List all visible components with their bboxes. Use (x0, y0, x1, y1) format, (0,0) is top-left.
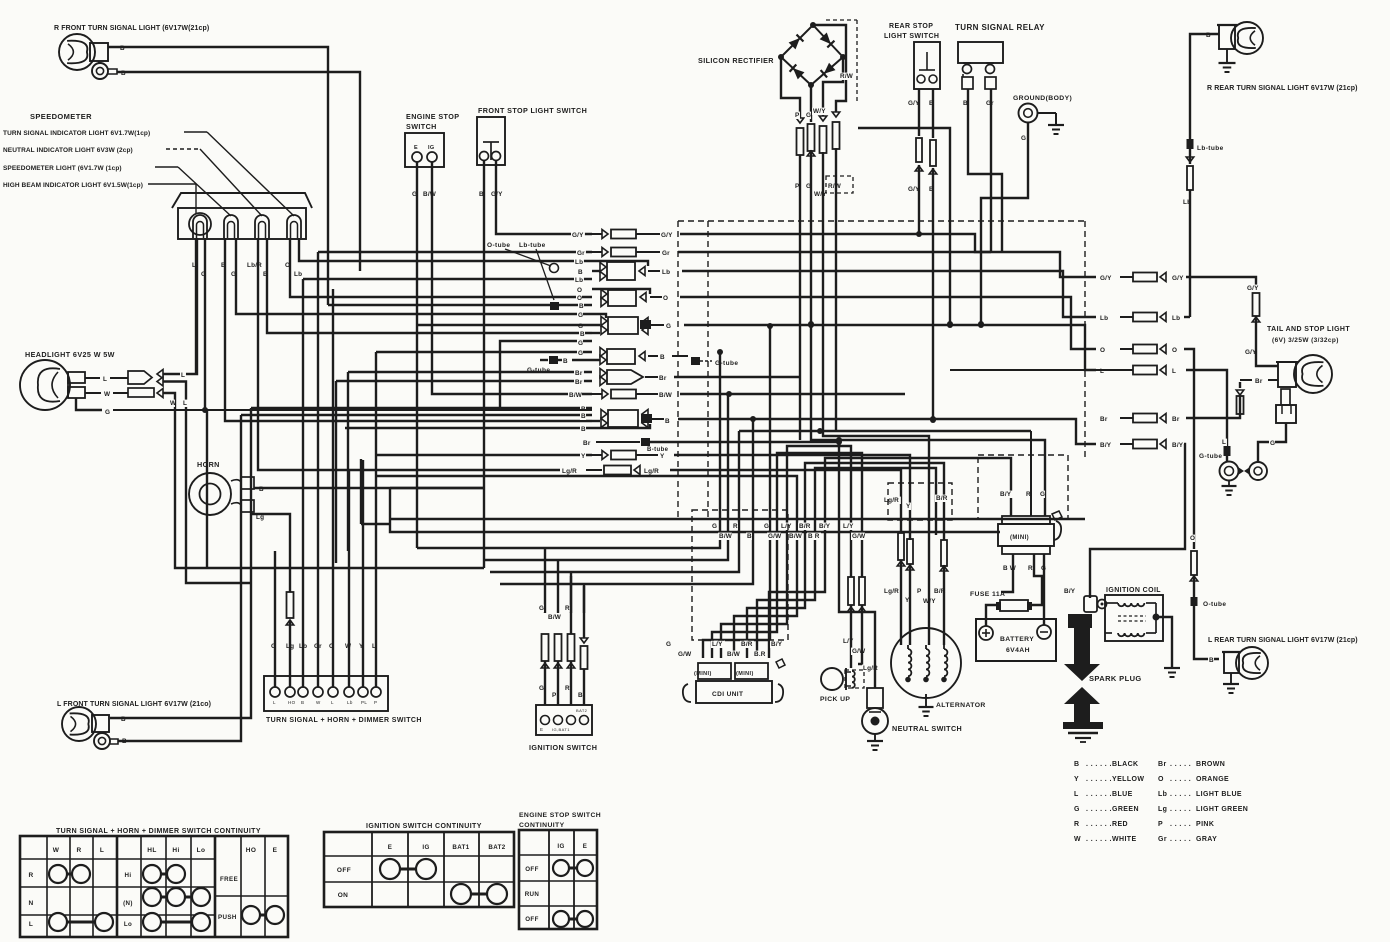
svg-text:G: G (1074, 806, 1080, 813)
tube markers O-tube Lb-tube (487, 242, 559, 310)
wire B run (500, 419, 753, 584)
label L front turn signal light (57, 701, 211, 708)
connector row B/W (568, 390, 905, 400)
wire G from rectifier to MINI connector (805, 85, 1045, 516)
wire L from headlight (85, 238, 251, 583)
svg-text:CONTINUITY: CONTINUITY (519, 822, 565, 829)
leader speedometer light (3, 165, 231, 216)
svg-text:FREE: FREE (220, 876, 238, 883)
svg-text:Lb: Lb (662, 269, 670, 276)
svg-text:B: B (301, 700, 304, 705)
svg-text:G: G (764, 523, 769, 530)
wire P from rectifier (781, 57, 804, 440)
svg-text:L/Y: L/Y (843, 523, 854, 530)
connector row G/Y centre (571, 230, 1096, 278)
svg-text:Br: Br (1158, 761, 1167, 768)
svg-text:B/Y: B/Y (1172, 442, 1184, 449)
svg-text:Br: Br (583, 440, 591, 447)
label alternator (936, 702, 986, 709)
svg-text:PL: PL (361, 700, 367, 705)
svg-text:IGNITION COIL: IGNITION COIL (1106, 587, 1161, 594)
svg-text:. . . . .: . . . . . (1170, 836, 1191, 843)
ring terminal R front turn signal (92, 63, 117, 79)
svg-text:Lg/R: Lg/R (644, 468, 659, 475)
svg-text:IG: IG (428, 145, 435, 151)
svg-text:W/Y: W/Y (814, 191, 827, 198)
socket link (1238, 467, 1250, 475)
labels wire bundle (711, 523, 866, 540)
svg-text:FRONT STOP LIGHT SWITCH: FRONT STOP LIGHT SWITCH (478, 106, 587, 115)
ring terminal L front turn signal (94, 733, 118, 749)
svg-text:BATTERY: BATTERY (1000, 636, 1034, 643)
svg-text:IGNITION SWITCH: IGNITION SWITCH (529, 743, 597, 752)
wire B.R CDI to alternator (757, 468, 936, 658)
svg-text:E: E (583, 843, 588, 850)
svg-text:L/Y: L/Y (843, 638, 854, 645)
silicon rectifier bridge (778, 22, 846, 88)
svg-text:Br: Br (659, 375, 667, 382)
svg-text:Lb-tube: Lb-tube (519, 242, 546, 249)
svg-text:B: B (581, 413, 586, 420)
label silicon rectifier (698, 56, 774, 65)
table ignition switch continuity (324, 823, 514, 907)
svg-text:L: L (181, 372, 185, 379)
svg-text:G-tube: G-tube (715, 360, 738, 367)
front stop light switch (477, 117, 505, 165)
speedometer bulb 2 (224, 215, 238, 238)
wire B2 from L front turn signal (118, 415, 241, 745)
svg-text:G/Y: G/Y (661, 232, 673, 239)
svg-text:TAIL AND STOP LIGHT: TAIL AND STOP LIGHT (1267, 326, 1350, 333)
svg-text:P: P (795, 112, 800, 119)
label front stop light switch (478, 106, 587, 115)
label headlight (25, 350, 115, 359)
table turn signal horn dimmer switch continuity (20, 828, 288, 937)
horn terminals (231, 477, 254, 512)
connector row right Br to tail light (1099, 382, 1244, 423)
connector G ignition switch (538, 605, 549, 705)
svg-text:BAT2: BAT2 (576, 708, 588, 713)
wire W from headlight (85, 388, 484, 568)
svg-text:L: L (1172, 368, 1176, 375)
svg-text:. . . . .: . . . . . (1170, 806, 1191, 813)
connector B/Y ignition coil (1063, 588, 1107, 612)
svg-text:G: G (1270, 440, 1275, 447)
wire W to dimmer switch (344, 470, 352, 687)
dashed marker around R/W (826, 20, 857, 193)
svg-text:B: B (563, 358, 568, 365)
svg-text:B/W: B/W (789, 533, 803, 540)
pick up coil (846, 668, 855, 690)
connector row right L with G-tube (950, 366, 1231, 463)
wire G2 from speedometer to connector (230, 238, 592, 314)
svg-text:N: N (28, 900, 33, 907)
dashed box alternator pins (888, 483, 952, 520)
wire R drop to ignition switch (570, 572, 572, 613)
svg-text:E: E (388, 844, 393, 851)
wire G from engine stop switch (411, 162, 440, 548)
ground body ring terminal (1019, 104, 1038, 123)
wire Lg to dimmer switch with connector (285, 590, 295, 687)
svg-text:G: G (1040, 491, 1045, 498)
svg-text:. . . . .: . . . . . (1170, 791, 1191, 798)
lamp R rear turn signal (1217, 22, 1263, 54)
svg-text:SWITCH: SWITCH (406, 122, 437, 131)
svg-text:E: E (414, 145, 418, 151)
wire B2 from R front turn signal to connector row B (117, 70, 360, 271)
svg-text:B R: B R (808, 533, 820, 540)
svg-text:L: L (183, 400, 187, 407)
svg-text:TURN SIGNAL RELAY: TURN SIGNAL RELAY (955, 23, 1045, 32)
svg-text:Hi: Hi (172, 847, 179, 854)
svg-text:TURN SIGNAL INDICATOR LIGHT 6: TURN SIGNAL INDICATOR LIGHT 6V1.7W(1cp) (3, 130, 150, 137)
svg-text:G: G (578, 312, 583, 319)
ground L rear turn signal (1223, 673, 1239, 693)
svg-text:Br: Br (1172, 416, 1180, 423)
svg-text:W/Y: W/Y (813, 108, 826, 115)
svg-text:PINK: PINK (1196, 821, 1214, 828)
ground symbol body (1037, 113, 1064, 134)
wire B from turn signal relay (962, 89, 1002, 252)
wire junction node (858, 128, 953, 327)
wire B from R front turn signal to node (108, 45, 328, 305)
svg-text:P: P (552, 692, 557, 699)
connector row Br single with B-tube (582, 438, 842, 453)
svg-text:O: O (1100, 347, 1105, 354)
svg-text:ENGINE STOP: ENGINE STOP (406, 112, 459, 121)
svg-text:Lb/R: Lb/R (247, 262, 262, 269)
spark plug (1063, 687, 1103, 742)
svg-text:ORANGE: ORANGE (1196, 776, 1229, 783)
svg-text:(N): (N) (123, 900, 133, 907)
leader high beam indicator light (3, 182, 196, 213)
Lb-tube marker (1187, 139, 1224, 152)
svg-text:B/R: B/R (936, 495, 948, 502)
svg-text:B: B (579, 303, 584, 310)
svg-text:BLUE: BLUE (1112, 791, 1133, 798)
svg-text:GROUND(BODY): GROUND(BODY) (1013, 95, 1072, 102)
svg-text:B: B (578, 269, 583, 276)
label fuse (970, 591, 1005, 598)
wire long run y532 (390, 488, 1000, 532)
svg-text:Lb: Lb (294, 271, 302, 278)
wire B/W run (484, 394, 728, 560)
wire R MINI stub (1030, 431, 1032, 516)
ignition coil (1105, 595, 1163, 641)
wire B from L front turn signal (110, 408, 251, 723)
tail light socket right (1249, 462, 1267, 480)
speedometer housing (172, 193, 312, 239)
connector B/W ignition switch (547, 614, 562, 705)
dashed harness boundary (678, 221, 1085, 520)
wire B2 from speedometer to connector (262, 238, 592, 333)
turn signal relay body (958, 42, 1003, 63)
svg-text:Lg/R: Lg/R (884, 497, 899, 504)
svg-text:G/Y: G/Y (1172, 275, 1184, 282)
svg-text:B: B (665, 418, 670, 425)
wire long run y519 (361, 459, 1085, 524)
svg-text:Br: Br (575, 379, 583, 386)
wire B from R rear turn signal (1190, 32, 1219, 139)
label engine stop switch (406, 112, 459, 131)
svg-text:HL: HL (147, 847, 156, 854)
svg-text:W: W (316, 700, 321, 705)
svg-text:O-tube: O-tube (1203, 601, 1226, 608)
svg-text:HO: HO (288, 700, 296, 705)
svg-text:(MINI): (MINI) (1010, 535, 1029, 541)
svg-text:O: O (577, 295, 582, 302)
svg-text:Lb: Lb (1158, 791, 1167, 798)
leader turn signal indicator light (3, 130, 294, 216)
svg-text:P: P (917, 588, 922, 595)
svg-text:B: B (1074, 761, 1079, 768)
connector row Gr (318, 248, 991, 258)
svg-text:Y: Y (1074, 776, 1079, 783)
svg-text:G: G (105, 409, 110, 416)
svg-text:Lo: Lo (124, 921, 132, 928)
svg-text:(6V) 3/25W (3/32cp): (6V) 3/25W (3/32cp) (1272, 337, 1339, 344)
wire B from speedometer to connector (220, 238, 592, 421)
speedometer bulb 4 (287, 215, 301, 238)
svg-text:CDI UNIT: CDI UNIT (712, 691, 743, 698)
wire Lg from horn (252, 514, 290, 590)
svg-text:O: O (1190, 535, 1195, 542)
svg-text:G/W: G/W (852, 648, 866, 655)
connector row right O (1099, 345, 1194, 550)
wire B/W from MINI (1001, 554, 1013, 592)
svg-text:R: R (733, 523, 738, 530)
wire B/W drop to ignition switch (557, 560, 559, 613)
svg-text:B/Y: B/Y (819, 523, 831, 530)
svg-text:Lb: Lb (1172, 315, 1180, 322)
speedometer bulb 3 (255, 215, 269, 238)
labels CDI wires (665, 641, 784, 658)
svg-text:BLACK: BLACK (1112, 761, 1139, 768)
wire G drop to ignition switch (544, 548, 546, 613)
neutral switch (862, 688, 888, 734)
svg-text:Lo: Lo (197, 847, 206, 854)
dashed box MINI pins (978, 455, 1068, 519)
MINI connector battery (998, 511, 1062, 554)
wire fuse to battery plus (986, 605, 996, 626)
svg-text:B: B (581, 426, 586, 433)
wire G tail light (1258, 423, 1286, 462)
wire B from horn (254, 486, 484, 524)
wire G/W CDI to pick up (712, 453, 862, 658)
svg-text:PICK UP: PICK UP (820, 696, 850, 703)
rear stop light switch (914, 42, 940, 89)
CDI unit (683, 659, 785, 703)
svg-text:G: G (1021, 135, 1026, 142)
svg-text:G/W: G/W (852, 533, 866, 540)
svg-text:R: R (565, 685, 570, 692)
svg-text:L: L (331, 700, 334, 705)
svg-text:Lb: Lb (575, 277, 583, 284)
wire W/Y from rectifier to alternator (812, 57, 929, 540)
svg-text:. . . . . .: . . . . . . (1086, 806, 1112, 813)
svg-text:Gr: Gr (662, 250, 670, 257)
svg-text:R: R (28, 872, 33, 879)
wire G/Y from front stop light switch to connector row (490, 161, 592, 234)
wire R to MINI connector (739, 428, 1031, 434)
svg-text:(MINI): (MINI) (736, 671, 754, 677)
wire Lb to connector row (1182, 149, 1194, 317)
svg-text:G: G (666, 641, 671, 648)
svg-text:O-tube: O-tube (487, 242, 510, 249)
svg-text:. . . . .: . . . . . (1170, 761, 1191, 768)
svg-text:. . . . .: . . . . . (1170, 821, 1191, 828)
svg-text:. . . . . .: . . . . . . (1086, 821, 1112, 828)
svg-text:6V4AH: 6V4AH (1006, 647, 1030, 654)
wire R from MINI to fuse (1032, 554, 1042, 605)
svg-text:B/Y: B/Y (1064, 588, 1076, 595)
tail and stop light lamp (1276, 355, 1332, 393)
connector row G group (417, 312, 1096, 410)
svg-text:G: G (578, 350, 583, 357)
connector row Br pair (336, 369, 800, 564)
label horn (197, 460, 220, 469)
svg-text:B: B (580, 331, 585, 338)
svg-text:SPARK PLUG: SPARK PLUG (1089, 674, 1142, 683)
colour code legend (1074, 761, 1248, 843)
dashed box CDI bundle (692, 510, 788, 640)
svg-text:R: R (565, 605, 570, 612)
wire B drop to ignition switch (583, 584, 585, 613)
wire W/Y alternator drop (916, 540, 936, 645)
svg-text:OFF: OFF (525, 866, 539, 873)
svg-text:B/W: B/W (569, 392, 583, 399)
svg-text:E: E (540, 727, 543, 732)
table engine stop switch continuity (519, 812, 601, 929)
svg-text:HORN: HORN (197, 460, 220, 469)
svg-text:BROWN: BROWN (1196, 761, 1225, 768)
wire G/Y from rear stop light switch (907, 89, 923, 237)
wire B/R alternator (933, 495, 949, 645)
svg-text:. . . . .: . . . . . (1170, 776, 1191, 783)
wire O from speedometer to connector (284, 238, 592, 297)
svg-text:B: B (747, 533, 752, 540)
wire Lb/R from speedometer (246, 238, 349, 470)
svg-text:W: W (104, 391, 111, 398)
wire L from speedometer (191, 238, 197, 374)
ground neutral switch (867, 734, 883, 750)
turn signal horn dimmer switch (264, 676, 388, 711)
svg-text:G/W: G/W (678, 651, 692, 658)
wire O to L rear turn signal (1189, 535, 1226, 664)
svg-text:L/Y: L/Y (781, 523, 792, 530)
lamp R front turn signal (59, 34, 108, 70)
svg-text:REAR STOP: REAR STOP (889, 23, 933, 30)
svg-text:G-tube: G-tube (1199, 453, 1222, 460)
wire L to dimmer switch (371, 352, 377, 687)
wire B/W to CDI (376, 476, 797, 658)
wire G to dimmer switch (270, 551, 276, 687)
svg-text:. . . . . .: . . . . . . (1086, 836, 1112, 843)
wire G from ground body (978, 122, 1028, 327)
engine stop switch (405, 133, 444, 167)
tail light socket left with ground (1220, 462, 1239, 496)
ground ignition coil (1156, 617, 1180, 677)
svg-text:G/Y: G/Y (1247, 285, 1259, 292)
svg-text:OFF: OFF (337, 867, 351, 874)
svg-text:SPEEDOMETER: SPEEDOMETER (30, 112, 92, 121)
wire Lb from speedometer to connector (293, 238, 592, 278)
svg-text:Br: Br (575, 370, 583, 377)
svg-text:P: P (1158, 821, 1163, 828)
svg-text:NEUTRAL INDICATOR LIGHT 6V: NEUTRAL INDICATOR LIGHT 6V3W (2cp) (3, 147, 133, 154)
wire B/W from engine stop switch to connector row (422, 162, 592, 394)
svg-text:G: G (712, 523, 717, 530)
svg-text:BAT1: BAT1 (452, 844, 469, 851)
svg-text:B/Y: B/Y (771, 641, 783, 648)
svg-text:. . . . . .: . . . . . . (1086, 791, 1112, 798)
svg-text:W: W (53, 847, 60, 854)
alternator (891, 628, 961, 716)
svg-text:O: O (577, 287, 582, 294)
svg-text:L: L (273, 700, 276, 705)
wire Y to dimmer switch (358, 460, 364, 687)
svg-text:. . . . . .: . . . . . . (1086, 761, 1112, 768)
connector row G/B with G-tube (376, 348, 738, 375)
svg-text:B/W: B/W (659, 392, 673, 399)
svg-text:ALTERNATOR: ALTERNATOR (936, 702, 986, 709)
svg-text:HIGH BEAM INDICATOR LIGHT: HIGH BEAM INDICATOR LIGHT 6V1.5W(1cp) (3, 182, 143, 189)
wire B/Y to ignition coil (1090, 440, 1185, 599)
svg-text:BAT2: BAT2 (488, 844, 505, 851)
svg-text:B/W: B/W (423, 191, 437, 198)
label ground body (1013, 95, 1072, 102)
svg-text:IG: IG (422, 844, 429, 851)
svg-text:YELLOW: YELLOW (1112, 776, 1144, 783)
wire B/Y CDI to MINI connector (769, 458, 1011, 658)
wire R run (490, 431, 739, 572)
svg-text:Lg/R: Lg/R (562, 468, 577, 475)
svg-text:Gr: Gr (1158, 836, 1167, 843)
svg-text:G: G (806, 112, 811, 119)
fuse 11A (996, 600, 1032, 611)
label turn signal horn dimmer switch (266, 717, 422, 724)
wire G run ignition (440, 349, 723, 548)
svg-text:B: B (660, 354, 665, 361)
svg-text:R: R (76, 847, 81, 854)
connector B ignition switch (577, 586, 588, 705)
svg-text:Lb: Lb (575, 259, 583, 266)
label ignition coil (1106, 587, 1161, 594)
wire G/W pick up connector (851, 577, 866, 664)
svg-text:G: G (539, 685, 544, 692)
svg-text:L: L (1222, 439, 1226, 446)
svg-text:G: G (539, 605, 544, 612)
svg-text:RUN: RUN (525, 891, 540, 898)
svg-text:L: L (29, 921, 33, 928)
svg-text:Y: Y (660, 453, 665, 460)
svg-text:L REAR TURN SIGNAL LIGHT: L REAR TURN SIGNAL LIGHT 6V17W (21cp) (1208, 637, 1358, 644)
svg-text:LIGHT BLUE: LIGHT BLUE (1196, 791, 1242, 798)
svg-text:LIGHT GREEN: LIGHT GREEN (1196, 806, 1248, 813)
label ignition switch (529, 743, 597, 752)
svg-text:GREEN: GREEN (1112, 806, 1139, 813)
svg-text:R REAR TURN SIGNAL LIGHT: R REAR TURN SIGNAL LIGHT 6V17W (21cp) (1207, 85, 1358, 92)
label rear stop light switch (884, 23, 939, 40)
svg-text:Lb: Lb (1100, 315, 1108, 322)
label speedometer (30, 112, 92, 121)
svg-text:R FRONT TURN SIGNAL LIGHT: R FRONT TURN SIGNAL LIGHT (6V17W(21cp) (54, 25, 209, 32)
svg-text:G/W: G/W (768, 533, 782, 540)
svg-text:E: E (273, 847, 278, 854)
spark plug HT lead arrow (1064, 614, 1100, 681)
svg-text:PUSH: PUSH (218, 914, 237, 921)
svg-text:B/W: B/W (727, 651, 741, 658)
